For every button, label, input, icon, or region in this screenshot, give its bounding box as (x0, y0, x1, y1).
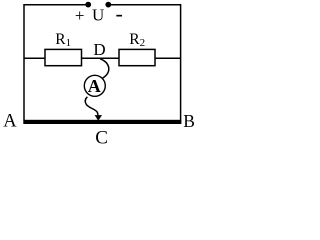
svg-text:D: D (93, 40, 105, 59)
svg-text:A: A (88, 76, 101, 96)
resistor R2 (119, 49, 155, 65)
ammeter U1 (84, 75, 105, 96)
wire curved from ammeter to slider (85, 97, 98, 116)
svg-text:-: - (116, 1, 123, 26)
wire right vertical (180, 4, 182, 121)
svg-text:B: B (183, 111, 195, 131)
node terminal dot left (+) (85, 2, 91, 8)
svg-text:+: + (75, 6, 85, 25)
slide wire bar A-B (23, 120, 181, 124)
svg-text:C: C (95, 128, 108, 149)
svg-text:2: 2 (140, 37, 146, 49)
wire middle-right segment (155, 57, 181, 59)
wire middle-center segment (82, 57, 120, 59)
wire left vertical (23, 4, 25, 121)
svg-text:R: R (55, 31, 66, 48)
wire middle-left segment (24, 57, 45, 59)
svg-text:U: U (92, 6, 104, 25)
wire top-right segment (109, 4, 181, 6)
svg-text:1: 1 (66, 37, 72, 49)
svg-text:A: A (3, 112, 17, 132)
svg-text:R: R (129, 31, 140, 48)
wire curved from node D to ammeter (100, 59, 109, 79)
slider contact arrowhead at C (95, 115, 102, 121)
wire top-left segment (24, 4, 88, 6)
node terminal dot right (-) (105, 2, 111, 8)
resistor R1 (45, 49, 82, 65)
